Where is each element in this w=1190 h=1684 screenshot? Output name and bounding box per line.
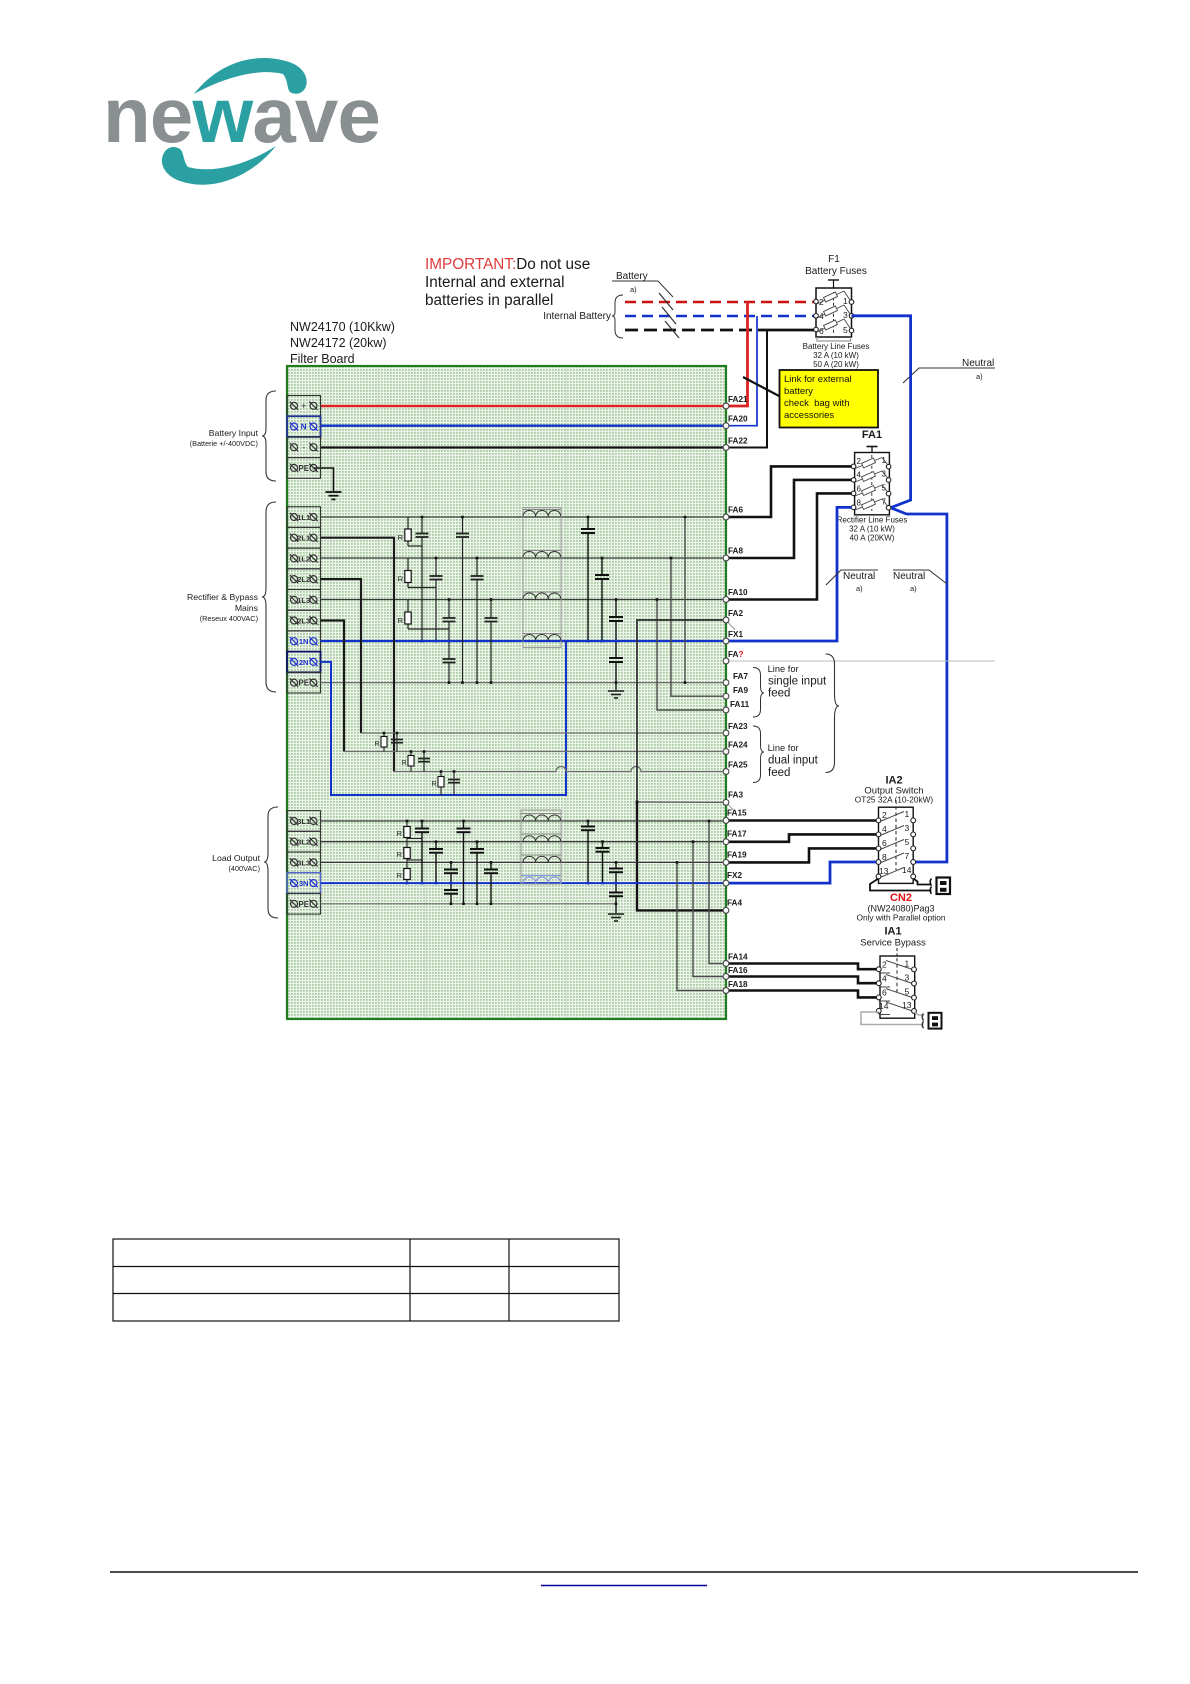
ground symbol load filter <box>608 914 624 921</box>
svg-text:3L1: 3L1 <box>297 817 311 826</box>
svg-text:feed: feed <box>768 767 790 779</box>
svg-text:batteries in parallel: batteries in parallel <box>425 292 553 309</box>
terminal block 1N <box>287 631 321 652</box>
svg-text:1: 1 <box>843 296 848 306</box>
junction dots neutral blue line <box>421 640 618 643</box>
resistor R snubber FA23 <box>374 733 403 752</box>
svg-text:feed: feed <box>768 688 790 700</box>
IA1 switch blades <box>879 961 913 1015</box>
wire IA1 aux loop pin14 <box>861 1012 924 1025</box>
wire battery minus black inside board <box>321 446 727 448</box>
svg-text:Service Bypass: Service Bypass <box>860 938 926 949</box>
terminal block 3L2 <box>287 831 321 852</box>
svg-text:newave: newave <box>103 71 380 159</box>
svg-text:2L2: 2L2 <box>297 575 310 584</box>
terminal block 3N <box>287 873 321 894</box>
resistor R snubber 1L1 <box>398 517 422 546</box>
label dual input feed <box>768 743 819 779</box>
capacitor C load x588 <box>581 821 595 883</box>
connector IA1 plug <box>922 1013 941 1029</box>
node FA25 <box>723 769 729 775</box>
inductor 1L3 <box>523 592 561 599</box>
wire FA24 line right <box>344 751 726 753</box>
terminal block 2L2 <box>287 569 321 590</box>
IA1 switch block <box>880 948 915 1018</box>
IA1 pins <box>876 967 916 1014</box>
svg-text:FX1: FX1 <box>728 630 743 639</box>
svg-text:FX2: FX2 <box>727 871 742 880</box>
capacitor C load x463 <box>457 821 471 904</box>
node FA2 <box>723 617 729 623</box>
svg-text:FA25: FA25 <box>728 761 748 770</box>
logo newave <box>103 58 380 185</box>
choke box rectifier <box>523 508 561 648</box>
tap single feed FA11 <box>657 600 726 711</box>
svg-text:2N: 2N <box>299 658 309 667</box>
node FA24 <box>723 749 729 755</box>
svg-text:dual input: dual input <box>768 755 819 767</box>
neutral label mid left <box>826 570 878 593</box>
tick FA2 <box>727 622 735 630</box>
wire 3L2 line <box>321 841 727 843</box>
wire 2N blue loop <box>321 641 567 795</box>
yellow note link for external battery <box>743 370 878 428</box>
resistor R snubber FA25 <box>431 772 460 796</box>
wire FA21 red riser <box>726 302 748 406</box>
wire 2L2 to FA23 <box>321 579 362 733</box>
wire FA20 blue riser <box>726 316 757 426</box>
wire 1L2 line <box>321 557 727 559</box>
tap bypass FA16 <box>693 842 726 977</box>
tick FA3 <box>727 804 733 810</box>
wire FA? leader <box>726 660 995 662</box>
junction dots FA23-25 lines <box>383 732 456 773</box>
wire FA8 to FA1 pin4 <box>726 480 852 558</box>
svg-text:Internal Battery: Internal Battery <box>543 311 611 322</box>
svg-text:FA4: FA4 <box>727 899 742 908</box>
wire battery plus red inside board <box>321 405 727 407</box>
capacitor C x436 <box>430 558 443 641</box>
svg-text:R: R <box>431 781 436 788</box>
svg-text:PE: PE <box>298 464 309 473</box>
F1 pin numbers <box>819 296 848 336</box>
svg-text:a): a) <box>910 584 917 593</box>
terminal block 2L3 <box>287 610 321 631</box>
wire 3L1 line <box>321 820 727 822</box>
svg-text:FA11: FA11 <box>730 700 750 709</box>
svg-text:1L2: 1L2 <box>297 554 310 563</box>
IA2 header <box>855 775 934 805</box>
svg-text:+: + <box>301 401 306 411</box>
IA1 pin numbers <box>879 959 912 1012</box>
FA1 block <box>855 447 890 515</box>
node FA19 <box>723 860 729 866</box>
node FA15 <box>723 818 729 824</box>
terminal block load PE <box>287 893 321 914</box>
node FA4 <box>723 908 729 914</box>
terminal block 2N <box>287 652 321 673</box>
wire neutral blue to IA2 pin7 <box>891 508 947 862</box>
svg-text:PE: PE <box>298 679 309 688</box>
FA1 fuse row 2-1 <box>855 458 888 469</box>
FA1 fuse row 4-3 <box>855 471 888 482</box>
node FA3 <box>723 800 729 806</box>
svg-text:3N: 3N <box>299 879 309 888</box>
svg-text:1N: 1N <box>299 637 309 646</box>
svg-text:single input: single input <box>768 676 827 688</box>
capacitor C x602 <box>595 558 609 641</box>
board edge nodes and FA labels <box>723 395 749 993</box>
terminal block 1L2 <box>287 548 321 569</box>
terminal block battery minus <box>287 437 321 458</box>
svg-text:FA24: FA24 <box>728 741 748 750</box>
svg-text:FA9: FA9 <box>733 686 748 695</box>
terminal block mains PE <box>287 672 321 693</box>
FA1 pins <box>851 464 891 510</box>
wire 2L3 to FA24 <box>321 621 345 752</box>
svg-text:Line for: Line for <box>768 664 799 674</box>
wire battery plus dashed red <box>625 301 818 304</box>
svg-text:a): a) <box>630 285 637 294</box>
inductor 3L1 <box>521 814 561 822</box>
node FA14 <box>723 961 729 967</box>
wire 3N blue line <box>321 882 727 884</box>
svg-text:5: 5 <box>843 325 848 335</box>
junction dot FA3 <box>636 801 639 804</box>
capacitor C x588 <box>581 517 595 641</box>
svg-text:50 A (20 kW): 50 A (20 kW) <box>813 360 859 369</box>
svg-text:FA15: FA15 <box>727 809 747 818</box>
terminal block battery PE <box>287 458 321 479</box>
svg-text:PE: PE <box>298 900 309 909</box>
svg-text:IMPORTANT:Do not use: IMPORTANT:Do not use <box>425 256 590 273</box>
brace big both feeds <box>826 654 839 773</box>
F1 caption <box>803 342 870 369</box>
node FA10 <box>723 597 729 603</box>
svg-text:F1: F1 <box>828 254 840 265</box>
label CN2 <box>856 892 945 923</box>
svg-text:R: R <box>401 760 406 767</box>
IA1 header <box>860 926 926 949</box>
svg-text:Rectifier & Bypass: Rectifier & Bypass <box>187 592 259 602</box>
svg-text:FA14: FA14 <box>728 953 748 962</box>
inductor 1L1 <box>523 510 561 517</box>
svg-text:FA16: FA16 <box>728 966 748 975</box>
svg-text:R: R <box>397 829 403 838</box>
svg-text:7: 7 <box>905 851 910 861</box>
svg-text:a): a) <box>976 372 983 381</box>
wire PE to ground <box>314 468 334 491</box>
svg-text:Battery Input: Battery Input <box>209 428 259 438</box>
label load output <box>212 853 260 873</box>
wire FX1 blue to FA1 pin8 <box>726 507 852 641</box>
wire battery minus dashed black <box>625 329 767 332</box>
svg-text:FA20: FA20 <box>728 415 748 424</box>
capacitor C load x491 <box>484 862 498 903</box>
svg-text:Rectifier Line Fuses: Rectifier Line Fuses <box>837 516 908 525</box>
capacitor C x491 <box>485 600 498 683</box>
node FA? <box>723 658 729 664</box>
svg-text:Battery Line Fuses: Battery Line Fuses <box>803 342 870 351</box>
svg-text:Neutral: Neutral <box>962 358 994 369</box>
inductor 3L2 <box>521 834 561 842</box>
wire FA2 to FA4 vertical <box>637 620 726 802</box>
svg-text:R: R <box>398 575 404 584</box>
fuse block F1 header <box>805 254 867 277</box>
svg-text:FA2: FA2 <box>728 609 743 618</box>
svg-text:FA17: FA17 <box>727 830 747 839</box>
resistor column load R1 R2 R3 <box>397 821 422 883</box>
capacitor C load x436 <box>429 842 443 883</box>
F1 fuse row 2-1 <box>817 291 850 304</box>
svg-text:(Batterie +/-400VDC): (Batterie +/-400VDC) <box>190 439 258 448</box>
FA1 fuse row 8-7 <box>855 499 888 510</box>
terminal block 1L3 <box>287 590 321 611</box>
bottom empty table <box>113 1239 619 1321</box>
resistor R snubber 1L3 <box>398 600 449 630</box>
wire neutral blue from F1 pin3 <box>852 316 911 508</box>
svg-text:6: 6 <box>857 485 862 494</box>
wire IA2 aux pin14 <box>913 879 931 885</box>
wire 1L3 line <box>321 599 727 601</box>
node FA17 <box>723 839 729 845</box>
brace load output group <box>264 807 278 918</box>
wire 2L1 to FA25 <box>321 538 395 772</box>
wire mains PE line <box>321 682 727 684</box>
node FX2 <box>723 880 729 886</box>
wire FA23 line right <box>361 732 726 734</box>
svg-text:FA18: FA18 <box>728 980 748 989</box>
IA2 pins <box>876 818 916 879</box>
brace dual feed group <box>753 726 764 783</box>
wire load PE line <box>321 903 617 905</box>
capacitor C x422 <box>416 517 429 641</box>
svg-text:1: 1 <box>905 809 910 819</box>
svg-text:FA19: FA19 <box>727 850 747 859</box>
IA2 switch block <box>879 800 914 883</box>
node FA7 <box>723 680 729 686</box>
svg-text:3L2: 3L2 <box>297 838 310 847</box>
svg-text:32 A (10 kW): 32 A (10 kW) <box>813 351 859 360</box>
svg-text:2L1: 2L1 <box>297 534 311 543</box>
junction dots 3N blue line <box>406 882 618 885</box>
capacitor C x462 <box>456 517 469 683</box>
svg-text:FA3: FA3 <box>728 791 743 800</box>
choke box load <box>521 810 561 884</box>
svg-text:FA1: FA1 <box>862 429 882 441</box>
neutral label top right <box>903 358 995 383</box>
capacitor C load x451 double <box>444 862 458 903</box>
svg-text:battery: battery <box>784 386 813 397</box>
svg-text:NW24172 (20kw): NW24172 (20kw) <box>290 336 387 350</box>
svg-text:Battery: Battery <box>616 271 648 282</box>
svg-text:Line for: Line for <box>768 743 799 753</box>
svg-text:CN2: CN2 <box>890 892 912 904</box>
svg-text:40 A (20KW): 40 A (20KW) <box>850 534 895 543</box>
wire battery N blue inside board <box>321 425 727 427</box>
tap single feed FA9 <box>671 558 726 696</box>
wire FA15 to IA2 pin2 <box>726 819 876 822</box>
label single input feed <box>768 664 827 700</box>
svg-text:NW24170 (10Kkw): NW24170 (10Kkw) <box>290 320 395 334</box>
F1 fuse row 4-3 <box>817 305 850 318</box>
wire FA10 to FA1 pin6 <box>726 493 852 599</box>
svg-text:Battery Fuses: Battery Fuses <box>805 266 867 277</box>
brace single feed group <box>753 668 764 718</box>
svg-text:3: 3 <box>905 823 910 833</box>
svg-text:FA7: FA7 <box>733 672 748 681</box>
disconnect slashes <box>659 293 679 338</box>
junction dots load lines <box>406 820 711 905</box>
F1 bottom link <box>817 337 851 341</box>
ground symbol battery PE <box>326 492 342 499</box>
capacitor C x449 double <box>443 600 456 683</box>
node FA22 <box>723 445 729 451</box>
svg-text:1L1: 1L1 <box>297 513 311 522</box>
svg-text:FA6: FA6 <box>728 506 743 515</box>
node FA16 <box>723 974 729 980</box>
svg-text:R: R <box>397 850 403 859</box>
svg-text:FA?: FA? <box>728 650 743 659</box>
title NW24170 filter board <box>290 320 395 366</box>
ground symbol mid filter <box>608 691 624 698</box>
capacitor C load x477 <box>470 842 484 904</box>
svg-text:R: R <box>374 741 379 748</box>
wire 1L1 line <box>321 516 727 518</box>
wire FA25 line right with hops <box>394 767 726 772</box>
svg-text:accessories: accessories <box>784 410 834 421</box>
fuse block F1 <box>816 280 852 337</box>
capacitor C load x602 <box>596 842 610 883</box>
brace internal battery <box>612 295 623 338</box>
node FA18 <box>723 988 729 994</box>
node FA21 <box>723 403 729 409</box>
filter board green area <box>287 366 726 1019</box>
connector CN2 plug <box>930 878 950 895</box>
inductor 1N <box>523 634 561 641</box>
capacitor C load x422 <box>415 821 429 883</box>
wire FX2 blue to IA2 pin8 <box>726 862 876 883</box>
terminal block 3L3 <box>287 852 321 873</box>
node FA23 <box>723 730 729 736</box>
svg-text:FA10: FA10 <box>728 588 748 597</box>
wire 3L3 line <box>321 861 727 863</box>
terminal block 2L1 <box>287 527 321 548</box>
wire FA14 to IA1 pin2 <box>726 964 876 970</box>
svg-text:R: R <box>398 616 404 625</box>
IA2 pin numbers <box>879 809 912 876</box>
wire IA2 aux loop pin13 <box>870 879 932 891</box>
terminal block battery N <box>287 416 321 437</box>
svg-text:(Reseux 400VAC): (Reseux 400VAC) <box>200 614 258 623</box>
footer rule <box>110 1571 1138 1573</box>
svg-text:Internal and external: Internal and external <box>425 274 564 291</box>
tap single feed FA7 <box>684 517 686 683</box>
capacitor C x477 <box>471 558 484 683</box>
node FX1 <box>723 638 729 644</box>
brace battery input group <box>262 391 276 481</box>
svg-text:(400VAC): (400VAC) <box>229 864 261 873</box>
IA2 switch blades <box>880 812 904 878</box>
svg-text:OT25 32A (10-20kW): OT25 32A (10-20kW) <box>855 795 934 805</box>
wire FA16 to IA1 pin4 <box>726 977 876 984</box>
tap bypass FA14 <box>709 821 726 964</box>
wire FA18 to IA1 pin6 <box>726 991 876 998</box>
neutral label mid right <box>893 570 947 593</box>
wire FA22 black riser <box>726 330 767 448</box>
inductor 3L3 <box>521 855 561 862</box>
node FA11 <box>723 707 729 713</box>
svg-text:5: 5 <box>905 837 910 847</box>
svg-text:Neutral: Neutral <box>843 571 875 582</box>
svg-text:Neutral: Neutral <box>893 571 925 582</box>
resistor R snubber 1L2 <box>398 558 436 588</box>
svg-text:4: 4 <box>857 471 862 480</box>
svg-text:8: 8 <box>857 499 862 508</box>
FA1 caption <box>837 516 908 543</box>
resistor R snubber FA24 <box>401 752 430 772</box>
svg-text:2: 2 <box>857 457 862 466</box>
svg-text:N: N <box>301 423 307 432</box>
wire FA6 to FA1 pin2 <box>726 466 852 517</box>
svg-text:check bag with: check bag with <box>784 398 849 409</box>
svg-text:IA1: IA1 <box>884 926 901 938</box>
node FA20 <box>723 423 729 429</box>
svg-text:a): a) <box>856 584 863 593</box>
svg-text:3: 3 <box>843 310 848 320</box>
svg-text:FA8: FA8 <box>728 547 743 556</box>
svg-text:2L3: 2L3 <box>297 617 310 626</box>
inductor 3N blue <box>521 876 561 884</box>
svg-text:FA22: FA22 <box>728 437 748 446</box>
svg-text:1L3: 1L3 <box>297 596 310 605</box>
svg-text:3L3: 3L3 <box>297 858 310 867</box>
F1 pins <box>814 299 854 333</box>
svg-text:Only with Parallel option: Only with Parallel option <box>856 913 945 923</box>
svg-text:14: 14 <box>902 865 912 875</box>
junction dots rectifier lines <box>421 516 687 684</box>
wire 1N neutral blue line <box>321 640 727 642</box>
FA1 block header <box>862 429 882 441</box>
svg-text:-: - <box>302 443 305 453</box>
svg-text:Load Output: Load Output <box>212 853 260 863</box>
node FA8 <box>723 555 729 561</box>
wire FA19 to IA2 pin6 <box>726 848 876 862</box>
svg-text:Mains: Mains <box>235 603 259 613</box>
capacitor C x616 double <box>609 600 623 691</box>
footer link underline <box>541 1585 707 1587</box>
brace rectifier mains group <box>262 502 276 692</box>
F1 fuse row 6-5 <box>817 319 850 332</box>
svg-text:FA23: FA23 <box>728 722 748 731</box>
FA1 pin numbers <box>857 456 887 508</box>
svg-text:R: R <box>397 871 403 880</box>
tap bypass FA18 <box>677 862 726 990</box>
label rectifier bypass mains <box>187 592 259 623</box>
node FA6 <box>723 514 729 520</box>
capacitor C load x616 double <box>609 862 623 913</box>
terminal block 3L1 <box>287 811 321 832</box>
wire FA17 to IA2 pin4 <box>726 834 876 841</box>
svg-text:R: R <box>398 533 404 542</box>
terminal block battery + <box>287 396 321 417</box>
node FA9 <box>723 693 729 699</box>
wire FA3 stub <box>637 801 726 803</box>
wire IA1 aux pin13 <box>914 1012 924 1015</box>
svg-text:13: 13 <box>902 1000 912 1010</box>
FA1 fuse row 6-5 <box>855 485 888 496</box>
svg-text:32 A (10 kW): 32 A (10 kW) <box>849 525 895 534</box>
